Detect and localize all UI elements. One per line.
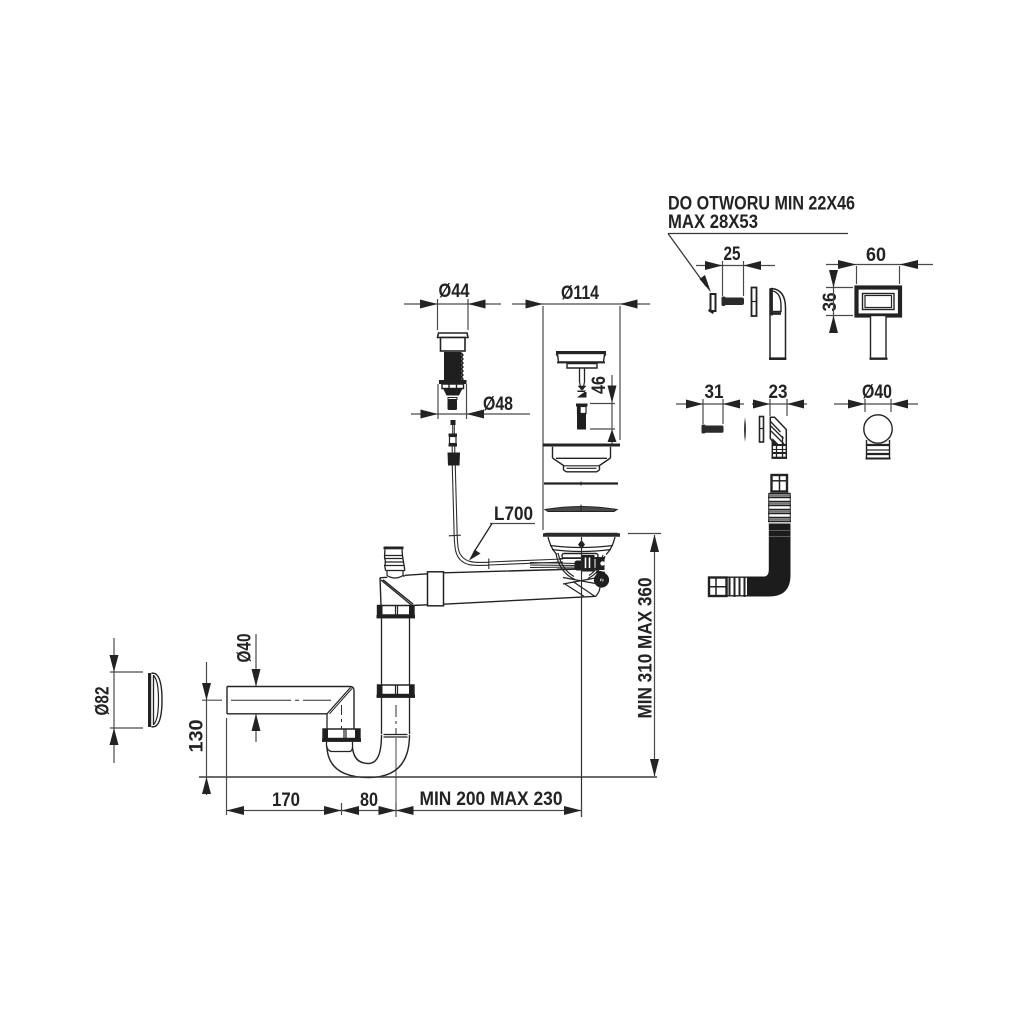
svg-text:46: 46	[589, 376, 610, 394]
cable pin and connector	[448, 420, 461, 466]
drain bowl	[548, 537, 615, 580]
svg-text:Ø44: Ø44	[439, 281, 470, 302]
svg-text:36: 36	[820, 293, 841, 312]
vertical pipe upper	[382, 618, 410, 685]
strainer cap	[556, 351, 606, 368]
dimension 25	[696, 244, 775, 296]
dimension 130	[187, 662, 223, 795]
outlet pipe horizontal	[227, 687, 354, 730]
dimension Ø114	[512, 283, 650, 530]
overflow angled connector	[770, 417, 787, 458]
trap U-bend	[327, 735, 410, 778]
svg-text:MIN 310 MAX 360: MIN 310 MAX 360	[636, 578, 657, 719]
dimension MIN 310 MAX 360	[628, 534, 661, 777]
nut top	[377, 606, 416, 619]
inlet ribbed connector	[384, 547, 406, 579]
L700 label	[469, 504, 535, 561]
drain tail	[563, 572, 604, 597]
dimension Ø48	[411, 384, 530, 419]
svg-text:Ø82: Ø82	[93, 687, 114, 716]
svg-text:25: 25	[724, 244, 741, 265]
bottom reference line	[199, 776, 657, 778]
control cable	[449, 466, 563, 570]
plug piece	[576, 404, 588, 430]
dimension Ø40 pipe	[235, 634, 261, 743]
overflow cover front view	[857, 288, 901, 359]
nut middle	[377, 685, 416, 698]
thin gasket lens	[744, 417, 746, 442]
drain flange top	[543, 533, 620, 549]
drain centerline	[581, 537, 583, 817]
pull knob	[438, 333, 469, 410]
note DO OTWORU text	[668, 194, 855, 234]
elbow top view (circle)	[864, 415, 892, 459]
hose elbow black	[747, 524, 791, 597]
washer plate (25 group)	[752, 288, 757, 317]
svg-text:Ø48: Ø48	[483, 394, 513, 415]
pipe centerline dash	[231, 700, 396, 817]
dimension 31	[676, 382, 744, 424]
vertical pipe lower	[382, 698, 410, 737]
clamp bracket part	[708, 294, 716, 314]
svg-text:80: 80	[360, 790, 378, 811]
flat washer plate	[760, 417, 764, 443]
gasket thin	[544, 482, 618, 486]
dimension Ø40 right	[834, 382, 918, 412]
leader arrow to clamp	[668, 234, 711, 293]
overflow elbow side view	[769, 289, 786, 359]
hose corrugation lower	[727, 577, 748, 598]
svg-text:MIN 200 MAX 230: MIN 200 MAX 230	[420, 789, 563, 810]
svg-text:31: 31	[705, 382, 724, 403]
dimension Ø44	[404, 281, 501, 330]
hose corrugation upper	[768, 494, 791, 523]
svg-text:23: 23	[769, 382, 788, 403]
svg-text:130: 130	[187, 720, 208, 753]
svg-text:Ø40: Ø40	[235, 634, 256, 663]
dimension 23	[752, 382, 807, 416]
svg-text:L700: L700	[494, 504, 533, 525]
svg-text:Ø114: Ø114	[561, 283, 599, 304]
drain mechanism	[530, 554, 609, 588]
dimension 36	[820, 270, 853, 333]
svg-text:Ø40: Ø40	[862, 382, 892, 403]
screw (31)	[702, 425, 724, 434]
flexible hose top fitting	[772, 475, 788, 492]
svg-text:MAX 28X53: MAX 28X53	[668, 212, 758, 233]
dimension Ø82	[93, 638, 144, 763]
svg-text:60: 60	[866, 245, 886, 266]
note underline	[668, 233, 848, 235]
cap Ø82 side view	[148, 673, 162, 727]
nut trap left	[322, 729, 361, 742]
pipe collar	[428, 572, 444, 606]
hose end fitting	[709, 578, 727, 597]
cap stem	[578, 368, 587, 398]
gasket lens	[545, 505, 617, 512]
screw (25)	[722, 297, 745, 307]
strainer flange	[543, 445, 620, 472]
dimension 170/80/MIN200	[227, 718, 582, 817]
dimension 60	[826, 245, 933, 284]
dimension 46	[589, 375, 617, 444]
svg-text:170: 170	[272, 790, 300, 811]
branch tee body	[380, 569, 598, 606]
